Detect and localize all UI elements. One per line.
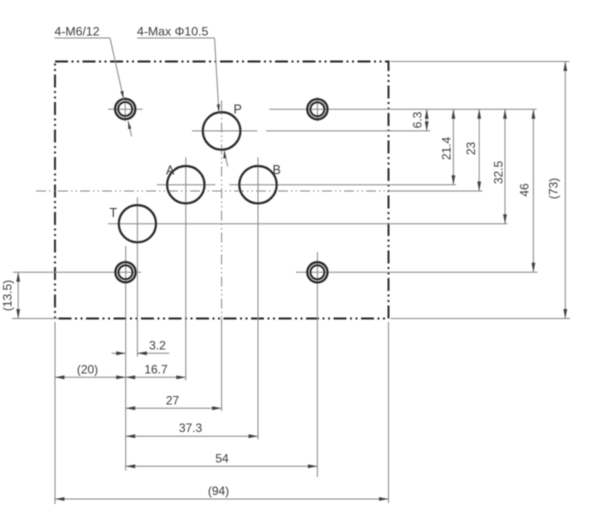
vertical center axis (P column) xyxy=(221,101,223,412)
svg-text:4-Max Φ10.5: 4-Max Φ10.5 xyxy=(137,25,208,39)
svg-text:(13.5): (13.5) xyxy=(1,280,15,311)
svg-text:16.7: 16.7 xyxy=(144,363,168,377)
svg-text:46: 46 xyxy=(518,183,532,197)
svg-text:(20): (20) xyxy=(77,363,98,377)
port B hole xyxy=(229,158,456,440)
dimension 32.5 (top hole row to T row) xyxy=(492,109,507,223)
dimension 54 (datum to right bolt column) xyxy=(126,451,318,468)
svg-text:(94): (94) xyxy=(208,484,229,498)
svg-text:A: A xyxy=(166,164,175,178)
dimension 16.7 (datum to port A column) xyxy=(126,363,186,380)
horizontal center axis xyxy=(36,190,483,192)
extension line plate bottom edge right xyxy=(391,318,571,320)
svg-text:4-M6/12: 4-M6/12 xyxy=(55,25,100,39)
port A hole xyxy=(157,158,215,381)
mounting bolt hole M6 top-left xyxy=(108,97,143,122)
dimension (73) overall height xyxy=(547,62,568,319)
extension line plate top edge right xyxy=(391,61,570,63)
dimension 27 (datum to port P column) xyxy=(126,394,222,411)
svg-text:6.3: 6.3 xyxy=(411,111,425,128)
mounting bolt hole M6 top-right xyxy=(270,97,537,122)
mounting bolt hole M6 bottom-right xyxy=(296,252,538,477)
dimension 3.2 (datum column to T column) xyxy=(112,339,170,356)
port T hole xyxy=(108,197,508,356)
svg-text:27: 27 xyxy=(166,394,180,408)
extension line plate left edge down xyxy=(54,322,56,504)
svg-text:21.4: 21.4 xyxy=(440,136,454,160)
dimension 37.3 (datum to port B column) xyxy=(126,421,258,438)
dimension 21.4 (top hole row to A/B row) xyxy=(440,109,456,184)
dimension 6.3 (top hole row to P row) xyxy=(411,109,429,131)
dimension 23 (top hole row to center axis) xyxy=(464,109,481,191)
svg-text:54: 54 xyxy=(215,451,229,465)
svg-text:32.5: 32.5 xyxy=(492,160,506,184)
extension line plate right edge down xyxy=(388,322,390,503)
svg-text:(73): (73) xyxy=(547,178,561,199)
svg-text:P: P xyxy=(234,103,242,117)
dimension (13.5) (bottom hole row to plate bottom) xyxy=(1,272,21,318)
svg-text:T: T xyxy=(110,206,118,220)
plate outline (valve mounting face, phantom line) xyxy=(55,62,389,319)
mounting bolt hole M6 bottom-left xyxy=(13,246,141,471)
note 4-M6/12 with leader to bolt hole xyxy=(55,25,132,137)
port P hole xyxy=(192,112,430,150)
svg-text:23: 23 xyxy=(464,142,478,156)
svg-text:37.3: 37.3 xyxy=(179,421,203,435)
dimension (94) overall width xyxy=(55,484,389,501)
dimension 46 (top hole row to bottom hole row) xyxy=(518,109,536,272)
svg-text:3.2: 3.2 xyxy=(149,339,166,353)
extension line plate bottom edge left xyxy=(12,318,58,320)
svg-text:B: B xyxy=(273,163,281,177)
dimension (20) (plate edge to datum column) xyxy=(55,363,126,380)
note 4-Max &#934;10.5 with leader to port P xyxy=(137,25,228,167)
